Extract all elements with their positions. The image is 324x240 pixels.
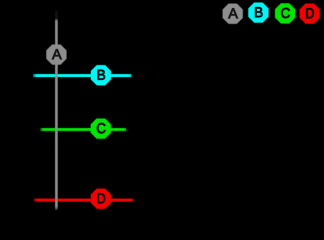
junction: plumb line crossing cyan wire [54, 75, 59, 77]
node A (gray ball on plumb line) [47, 45, 65, 63]
wire: green horizontal line C [40, 128, 126, 132]
legend node B [249, 3, 267, 21]
junction: plumb line crossing red wire [54, 199, 59, 201]
node B (cyan ball) [92, 66, 110, 84]
junction: plumb line crossing green wire [54, 129, 59, 131]
wire: vertical gray plumb line [55, 10, 58, 210]
node D (red ball) [92, 190, 110, 208]
legend node D [301, 4, 319, 22]
wire: cyan horizontal line B [33, 74, 132, 78]
wire: red horizontal line D [34, 198, 134, 202]
legend node C [276, 4, 294, 22]
node C (green ball) [92, 119, 110, 137]
legend node A [224, 5, 242, 23]
